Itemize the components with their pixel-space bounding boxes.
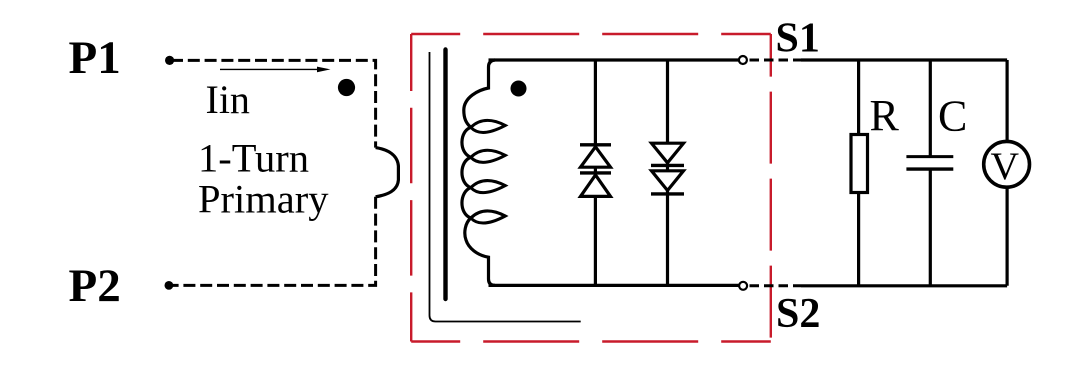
winding arc 2-3 <box>462 157 471 187</box>
diode D1 cathode bar <box>580 143 611 146</box>
svg-text:Primary: Primary <box>198 177 329 222</box>
secondary winding lead-in <box>464 60 495 127</box>
CT boundary red dashed box: top edge <box>411 33 771 35</box>
winding loop 3 <box>471 181 506 193</box>
diode branch 2 wire <box>666 60 669 285</box>
winding loop 1 <box>471 120 506 132</box>
svg-text:R: R <box>870 91 900 140</box>
svg-text:S2: S2 <box>776 291 820 337</box>
svg-text:1-Turn: 1-Turn <box>198 136 309 181</box>
wire S1 dashed stub <box>750 59 802 62</box>
diode D2 triangle <box>581 175 611 197</box>
diode D4 triangle <box>652 171 684 191</box>
diode branch 1 wire <box>594 60 597 285</box>
terminal S1 open circle <box>739 56 747 64</box>
diode D1 triangle <box>581 147 611 167</box>
winding loop 4 <box>471 211 506 223</box>
diode D3 cathode bar <box>651 164 684 167</box>
winding arc 1-2 <box>462 127 471 157</box>
wire secondary bottom <box>489 284 739 287</box>
svg-text:Iin: Iin <box>206 77 250 122</box>
svg-text:P1: P1 <box>69 32 121 84</box>
CT boundary red dashed box: left edge <box>410 34 412 342</box>
wire burden bottom <box>801 284 1007 287</box>
current arrow Iin <box>220 68 319 70</box>
wire secondary top <box>489 58 739 61</box>
wire primary dashed right lower+bottom <box>170 197 376 286</box>
capacitor C top plate <box>906 155 953 158</box>
primary pass-through bump <box>376 148 399 197</box>
svg-text:S1: S1 <box>776 15 820 61</box>
voltmeter branch wire top <box>1005 60 1008 142</box>
resistor R branch wire bottom <box>857 193 860 286</box>
terminal S2 open circle <box>739 282 747 290</box>
resistor R body <box>851 135 868 193</box>
winding arc 3-4 <box>462 188 471 218</box>
polarity dot secondary <box>511 81 527 97</box>
capacitor C branch wire top <box>929 60 932 157</box>
winding loop 2 <box>471 150 506 162</box>
voltmeter branch wire bottom <box>1005 187 1008 286</box>
capacitor C branch wire bottom <box>929 169 932 286</box>
diode D2 cathode bar <box>580 171 611 174</box>
svg-text:V: V <box>991 144 1020 188</box>
svg-text:P2: P2 <box>69 260 121 312</box>
wire primary dashed top+right upper <box>171 60 376 147</box>
diode D3 triangle <box>652 143 684 163</box>
resistor R branch wire top <box>857 60 860 135</box>
shield line (thin L) <box>430 52 581 322</box>
terminal dot P1 <box>165 56 174 65</box>
terminal dot P2 <box>165 281 174 290</box>
wire S2 dashed stub <box>750 284 802 287</box>
winding lead-out <box>465 218 495 285</box>
CT boundary red dashed box: right edge <box>770 34 772 342</box>
CT boundary red dashed box: bottom edge <box>411 340 771 342</box>
voltmeter circle <box>984 141 1030 187</box>
svg-text:C: C <box>938 91 967 140</box>
capacitor C bottom plate <box>906 167 953 170</box>
polarity dot primary <box>338 79 355 96</box>
core bar <box>443 50 447 300</box>
diode D4 cathode bar <box>651 192 684 195</box>
wire burden top <box>801 58 1007 61</box>
